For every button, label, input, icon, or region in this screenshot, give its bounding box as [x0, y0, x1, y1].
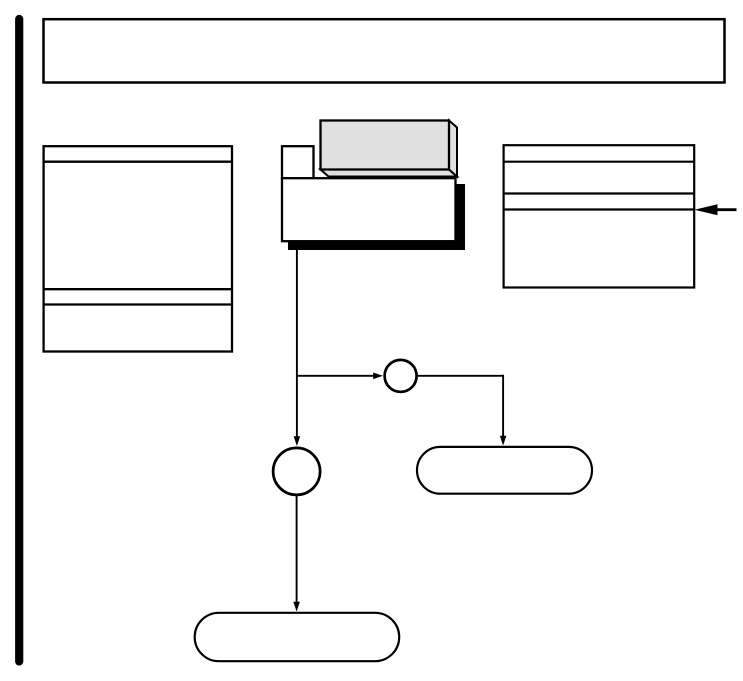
small connector circle — [385, 360, 417, 392]
wire: folder to branch junction — [296, 250, 298, 377]
right terminator pill — [417, 447, 592, 494]
arrowhead into bottom pill — [293, 602, 300, 612]
right list box line 3 — [503, 208, 695, 210]
wire: branch junction to small circle — [296, 375, 375, 377]
left list box lower line 2 — [43, 303, 233, 305]
bottom terminator pill — [195, 613, 400, 661]
right list box line 2 — [503, 192, 695, 194]
folder tab — [282, 146, 314, 178]
arrowhead into right pill — [500, 436, 507, 446]
arrowhead into big circle — [294, 436, 301, 446]
3D slab right face — [449, 121, 457, 177]
left list box — [44, 146, 232, 351]
left list box lower line 1 — [43, 288, 233, 290]
incoming arrow head — [695, 204, 718, 215]
arrowhead into small circle — [373, 373, 383, 380]
wire: corner down to right pill — [502, 375, 504, 437]
wire: junction down to big circle — [296, 376, 298, 438]
wire: small circle to corner — [417, 375, 504, 377]
3D slab front face — [321, 121, 450, 170]
left margin bar — [15, 19, 23, 662]
incoming arrow shaft — [714, 208, 737, 211]
folder body — [282, 178, 456, 241]
wire: big circle to bottom pill — [296, 495, 298, 603]
big connector circle — [273, 448, 320, 495]
right list box line 1 — [503, 161, 695, 163]
folder drop shadow — [288, 184, 465, 250]
title box — [44, 19, 725, 82]
3D slab bottom face — [321, 170, 458, 177]
left list box header line — [43, 161, 233, 163]
right list box — [504, 145, 695, 287]
